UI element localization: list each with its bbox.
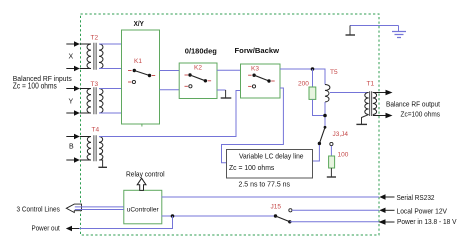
Relay control text	[126, 172, 165, 179]
Balanced RF inputs text	[13, 76, 72, 83]
X label	[69, 54, 74, 61]
svg-text:100: 100	[338, 152, 349, 159]
ground T4 secondary	[98, 160, 107, 167]
node junction T5 / R200 / switch	[323, 114, 327, 118]
transformer T2	[80, 43, 103, 70]
ground under R100	[327, 168, 336, 177]
inductor T5	[325, 85, 330, 103]
200 label	[298, 81, 309, 88]
svg-text:T4: T4	[92, 127, 100, 134]
uController text	[127, 206, 160, 213]
100 label	[338, 152, 349, 159]
wire X input row bottom	[66, 66, 80, 71]
svg-text:Balance RF output: Balance RF output	[386, 102, 440, 109]
wire uController power	[162, 215, 276, 217]
svg-text:Zc = 100 ohms: Zc = 100 ohms	[13, 81, 57, 90]
ground at K2 output	[221, 90, 232, 98]
wire X input row top	[66, 41, 80, 46]
wire K3 top output to T5	[280, 69, 325, 85]
svg-text:Forw/Backw: Forw/Backw	[235, 46, 280, 55]
X/Y title	[134, 19, 144, 28]
transformer T4	[80, 135, 103, 161]
wire local power line	[292, 209, 379, 211]
Local Power text	[397, 209, 448, 216]
local power arrow	[379, 208, 394, 213]
chassis ground wire top	[350, 25, 399, 27]
node junction K3 output / R200	[311, 67, 315, 71]
svg-text:K2: K2	[194, 65, 202, 72]
K1 label	[134, 58, 142, 65]
Zc inputs text	[13, 81, 57, 90]
wire J3 throw to delay line right	[313, 145, 320, 161]
output arrow bottom	[373, 113, 393, 118]
wire T5 bottom stem	[324, 102, 326, 127]
svg-text:Zc = 100 ohms: Zc = 100 ohms	[229, 163, 275, 172]
enclosure dashed border	[81, 14, 380, 235]
wire X/Y box to K2 lower	[160, 89, 180, 91]
wire T3 secondary to X/Y box	[99, 89, 122, 114]
relay box K3	[241, 64, 281, 98]
wire B input row bottom	[66, 157, 80, 162]
svg-text:0/180deg: 0/180deg	[185, 47, 217, 56]
wire B input row top	[66, 134, 80, 139]
Power in text	[397, 219, 457, 226]
J3,J4 label	[333, 131, 349, 138]
svg-text:T5: T5	[330, 69, 338, 76]
wire R200 top stem	[312, 69, 314, 87]
svg-text:Zc=100 ohms: Zc=100 ohms	[401, 112, 441, 119]
node junction power out tap	[171, 214, 175, 218]
wire K3 lower output to delay line	[222, 88, 284, 163]
wire K2 to K3	[217, 69, 241, 71]
svg-text:Power out: Power out	[32, 225, 60, 232]
svg-text:K1: K1	[134, 58, 142, 65]
delay line Zc text	[229, 163, 275, 172]
variable LC delay line box	[227, 150, 313, 179]
svg-text:T3: T3	[91, 81, 99, 88]
delay range text	[239, 182, 291, 189]
Balance RF output text	[386, 102, 440, 109]
svg-text:J15: J15	[271, 204, 282, 211]
power out arrow	[66, 226, 79, 231]
svg-text:B: B	[69, 144, 74, 151]
ground T1 primary	[356, 115, 368, 125]
Power out text	[32, 225, 60, 232]
switch J15	[274, 209, 292, 224]
wire X/Y box to K2 upper	[160, 70, 180, 72]
Serial RS232 text	[397, 195, 435, 202]
svg-text:X/Y: X/Y	[134, 19, 144, 28]
wire uController RS232	[162, 196, 380, 198]
ground chassis left	[346, 26, 356, 36]
switch J3,J4	[318, 126, 333, 146]
wire power in line	[290, 221, 379, 223]
3 Control Lines text	[17, 206, 61, 213]
svg-text:K3: K3	[251, 66, 259, 73]
transformer T1	[365, 91, 377, 116]
svg-text:200: 200	[298, 81, 309, 88]
svg-text:3 Control Lines: 3 Control Lines	[17, 206, 61, 213]
svg-text:Serial RS232: Serial RS232	[397, 195, 435, 202]
T4 label	[92, 127, 100, 134]
serial RS232 arrow	[379, 194, 394, 199]
K3 label	[251, 66, 259, 73]
output arrow top	[373, 90, 393, 95]
delay line text	[239, 154, 304, 161]
earth ground right	[392, 26, 406, 38]
wire power out drop	[79, 216, 173, 229]
K2 label	[194, 65, 202, 72]
relay switch K1	[128, 69, 155, 84]
svg-text:Relay control: Relay control	[126, 172, 165, 179]
uController box	[124, 190, 162, 224]
svg-text:J3,J4: J3,J4	[333, 131, 349, 138]
svg-text:Local Power 12V: Local Power 12V	[397, 209, 448, 216]
J15 label	[271, 204, 282, 211]
svg-text:2.5 ns to 77.5 ns: 2.5 ns to 77.5 ns	[239, 182, 291, 189]
wire Y input row top	[66, 86, 80, 91]
relay switch K3	[248, 74, 275, 89]
control lines bus	[75, 207, 124, 210]
0/180deg title	[185, 47, 217, 56]
svg-text:uController: uController	[127, 206, 160, 213]
wire Y input row bottom	[66, 110, 80, 115]
resistor 200	[309, 87, 316, 99]
wire T2 secondary to X/Y box	[99, 44, 122, 69]
svg-text:T2: T2	[91, 35, 99, 42]
transformer T3	[80, 87, 103, 114]
wire R200 bottom stem	[313, 99, 326, 115]
svg-text:T1: T1	[367, 81, 375, 88]
control lines hollow arrow	[66, 204, 81, 212]
T1 label	[367, 81, 375, 88]
wire tap to T1	[330, 92, 369, 94]
svg-text:Power in 13.8 - 18 V: Power in 13.8 - 18 V	[397, 219, 457, 226]
relay switch K2	[185, 73, 212, 88]
output Zc text	[401, 112, 441, 119]
wire K2 lower right stub	[217, 89, 226, 91]
relay box X/Y (K1)	[122, 30, 160, 127]
wire T4 secondary top to K3 lower input	[99, 91, 241, 137]
T2 label	[91, 35, 99, 42]
svg-text:Y: Y	[69, 99, 74, 106]
T3 label	[91, 81, 99, 88]
Forw/Backw title	[235, 46, 280, 55]
wire J4 throw to R100	[330, 146, 332, 156]
svg-text:X: X	[69, 54, 74, 61]
resistor 100	[329, 156, 335, 168]
B label	[69, 144, 74, 151]
svg-text:Variable LC delay line: Variable LC delay line	[239, 154, 304, 161]
power in arrow	[378, 219, 394, 224]
relay control hollow arrow	[137, 178, 146, 190]
relay box K2	[179, 63, 217, 99]
T5 label	[330, 69, 338, 76]
Y label	[69, 99, 74, 106]
